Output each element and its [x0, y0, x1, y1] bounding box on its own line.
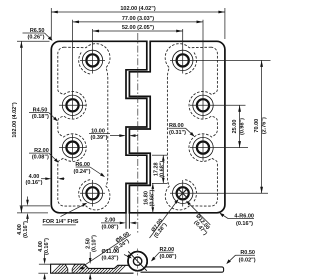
hole R2 [193, 95, 213, 115]
countersink hole white gap [65, 264, 75, 274]
svg-text:(0.16"): (0.16") [236, 221, 253, 227]
svg-text:(0.43"): (0.43") [102, 255, 119, 261]
label R2.00 [29, 148, 59, 163]
dim 2.50 recess [86, 235, 98, 280]
leaf gap extension lines [125, 213, 127, 229]
left leaf section bar [51, 264, 134, 273]
svg-text:2.00: 2.00 [105, 217, 116, 223]
svg-text:25.00: 25.00 [232, 120, 238, 134]
knuckle pin hole [133, 257, 141, 265]
label D11.00 [102, 249, 132, 261]
svg-text:2.50: 2.50 [86, 238, 92, 249]
label D7.00 rotated [150, 199, 179, 239]
hole R1 [173, 50, 193, 70]
svg-text:4.00: 4.00 [17, 224, 23, 235]
hole R4 [173, 183, 193, 203]
left bar outline [51, 264, 134, 273]
svg-text:(0.10"): (0.10") [92, 235, 98, 252]
svg-text:(0.39"): (0.39") [91, 135, 108, 141]
dim 17.28 [152, 154, 168, 156]
hole L1 [82, 50, 102, 70]
X spokes in hole R4 [179, 189, 187, 197]
dim 102 top: ext lines [50, 8, 52, 39]
svg-text:70.00: 70.00 [254, 119, 260, 133]
dim 10.00 knuckle [89, 128, 138, 141]
bulge arc around hole L4 [79, 180, 90, 202]
hole centerlines and extension lines [80, 59, 105, 61]
dim 102 left: ext + line [17, 40, 50, 42]
svg-text:(0.31"): (0.31") [169, 130, 186, 136]
hole R3 [193, 137, 213, 157]
right leaf side bar [141, 267, 224, 272]
dim 2.00 gap [101, 217, 137, 230]
hole L2 [62, 95, 82, 115]
svg-text:77.00 (3.03"): 77.00 (3.03") [122, 16, 154, 22]
right leaf recess pocket outline (hidden) [165, 44, 217, 210]
dim 4.00 bottom view thickness [38, 238, 50, 280]
dim 25 right [239, 105, 241, 147]
bulge arc around hole R4 [185, 180, 196, 202]
label 4-R6.00 bottom right [219, 213, 254, 227]
dim 4.00 bottom margin [17, 197, 50, 238]
label FOR 1/4" FHS [43, 203, 88, 225]
svg-text:(0.02"): (0.02") [239, 258, 256, 264]
bulge arc around hole R1 [185, 53, 196, 75]
label R8.00 [169, 123, 195, 137]
svg-text:FOR 1/4" FHS: FOR 1/4" FHS [43, 219, 79, 225]
label R2.00 knuckle fillet [151, 247, 177, 261]
left leaf recess pocket outline (hidden) [58, 44, 110, 210]
label D12.00 rotated [186, 201, 210, 237]
dim 77 line [73, 21, 204, 23]
svg-text:(0.08"): (0.08") [102, 225, 119, 231]
dim 4.00 left margin [26, 174, 65, 186]
svg-text:(0.24"): (0.24") [74, 169, 91, 175]
dim 70 right [261, 60, 263, 193]
screw holes [59, 20, 271, 207]
pin diagonal [128, 251, 147, 270]
svg-text:(0.26"): (0.26") [28, 35, 45, 41]
hinge left leaf outline [51, 41, 147, 213]
svg-text:(0.18"): (0.18") [32, 114, 49, 120]
label R6.50 [23, 28, 53, 41]
dim 102 top line [51, 11, 225, 13]
label R4.50 [29, 107, 58, 121]
dim 16.80 [152, 183, 154, 212]
svg-text:52.00 (2.05"): 52.00 (2.05") [122, 25, 154, 31]
pocket dashed outline left leaf [58, 44, 218, 210]
knuckle outer circle [128, 252, 147, 271]
svg-text:(2.76"): (2.76") [262, 117, 268, 134]
svg-text:(0.16"): (0.16") [44, 238, 50, 255]
hole L3 [62, 137, 82, 157]
svg-text:(0.16"): (0.16") [23, 221, 29, 238]
label D6.00 rotated leader [79, 231, 131, 269]
hinge right leaf outline [129, 41, 225, 213]
svg-text:4.00: 4.00 [38, 241, 44, 252]
svg-text:(0.68"): (0.68") [160, 161, 166, 178]
center pin axis centerline [137, 33, 139, 234]
svg-text:(0.66"): (0.66") [149, 189, 155, 206]
svg-text:(0.08"): (0.08") [160, 254, 177, 260]
svg-text:102.00 (4.02"): 102.00 (4.02") [120, 6, 155, 12]
hole L4 [82, 183, 102, 203]
arrowheads of dimension lines [20, 11, 263, 213]
svg-text:102.00 (4.02"): 102.00 (4.02") [12, 102, 18, 137]
dim 52 line [93, 30, 183, 32]
bulge arc around hole L1 [79, 53, 90, 75]
countersink outline [65, 264, 75, 273]
hole centerlines [59, 20, 271, 207]
svg-text:(0.16"): (0.16") [26, 180, 43, 186]
knuckle circle re-stroke [128, 252, 147, 271]
label R6.00 [74, 162, 105, 177]
svg-text:(0.08"): (0.08") [32, 155, 49, 161]
knuckle centerlines [137, 249, 139, 276]
label R0.50 [226, 250, 255, 264]
svg-text:(0.98"): (0.98") [240, 118, 246, 135]
